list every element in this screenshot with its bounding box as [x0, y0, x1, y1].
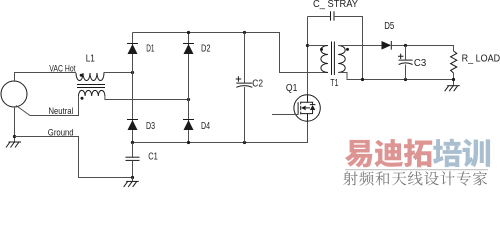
capacitor C_STRAY plates — [330, 11, 332, 20]
Q1 body diode wire — [312, 102, 314, 113]
wire C3 top — [405, 46, 407, 61]
ground symbol below C1 — [126, 180, 139, 182]
diode D3 — [127, 119, 138, 121]
transistor Q1 circle — [294, 95, 320, 121]
watermark char pei — [433, 139, 462, 168]
node top rail C2 — [243, 31, 246, 34]
Q1 body link — [306, 107, 310, 109]
wire R_LOAD bottom — [453, 73, 455, 86]
svg-text:R_ LOAD: R_ LOAD — [462, 54, 500, 65]
T1 primary winding — [321, 46, 328, 73]
L1 core lines — [77, 84, 105, 86]
svg-text:Q1: Q1 — [286, 83, 298, 94]
C2 plus sign — [236, 76, 242, 82]
node C1 ground junction — [131, 176, 134, 179]
inductor L1 top winding — [76, 73, 104, 81]
svg-text:D2: D2 — [201, 44, 211, 55]
inductor L1 bottom winding — [79, 90, 105, 96]
wire output top rail — [391, 46, 453, 52]
svg-text:D3: D3 — [146, 121, 155, 132]
capacitor C3 polarized — [399, 59, 413, 61]
wire VAC Hot — [15, 73, 77, 82]
T1 primary dot — [320, 48, 323, 51]
watermark char tuo — [404, 139, 432, 168]
svg-text:C3: C3 — [414, 58, 426, 69]
Q1 source internal — [301, 114, 313, 122]
node bottom rail D4 — [187, 141, 190, 144]
Q1 body arrow — [301, 106, 306, 111]
svg-text:D4: D4 — [201, 121, 210, 132]
wire top rail to primary — [133, 33, 328, 73]
Q1 body diode bar — [310, 104, 316, 106]
wire C_STRAY left — [308, 16, 331, 18]
wire secondary top to D5 — [338, 45, 381, 47]
node R_LOAD ground junction — [452, 78, 455, 81]
T1 secondary dot — [346, 48, 349, 51]
wire L1 bottom out to bridge — [105, 96, 189, 100]
Q1 channel segments — [300, 102, 302, 115]
C3 plus sign — [398, 54, 403, 59]
svg-text:C_ STRAY: C_ STRAY — [313, 0, 359, 10]
wire L1 top out to bridge — [104, 72, 133, 75]
svg-text:Ground: Ground — [48, 128, 74, 139]
wire C3 bottom — [405, 65, 407, 80]
L1 polarity dot top — [80, 74, 83, 77]
watermark char yi — [345, 140, 372, 168]
svg-text:D5: D5 — [384, 21, 394, 32]
wire Ground — [15, 137, 133, 178]
wire C2 bottom — [244, 87, 246, 143]
Q1 drain internal — [301, 95, 313, 102]
node bottom rail C2 — [243, 141, 246, 144]
Q1 gate wire stub — [272, 114, 298, 116]
wire C2 top — [244, 33, 246, 84]
diode D2 — [183, 43, 194, 45]
svg-text:VAC Hot: VAC Hot — [49, 64, 76, 75]
diode D1 — [127, 43, 138, 45]
wire C1 to ground — [132, 178, 134, 182]
svg-text:T1: T1 — [330, 78, 338, 89]
wire Neutral — [16, 96, 79, 116]
watermark char di — [375, 139, 404, 167]
Q1 gate bar — [297, 102, 299, 114]
AC source — [1, 81, 27, 107]
wire C1 bottom — [132, 160, 134, 177]
wire bottom rail to Q1 source — [133, 121, 308, 142]
wire bridge right column — [188, 33, 190, 143]
Q1 body diode triangle — [310, 105, 315, 110]
node ground junction — [13, 135, 16, 138]
diode D5 — [382, 41, 392, 50]
wire primary top — [308, 45, 328, 47]
T1 secondary winding — [338, 46, 345, 73]
wire C1 top — [132, 143, 134, 158]
capacitor C1 — [126, 156, 140, 158]
L1 polarity dot bottom — [81, 97, 84, 100]
watermark separator line — [345, 169, 488, 171]
svg-text:D1: D1 — [146, 44, 154, 55]
node drain-primary-CSTRAY — [306, 44, 309, 47]
T1 core lines — [331, 42, 333, 76]
node L1 to D2-D4 — [187, 98, 190, 101]
node C_STRAY right to output return — [361, 78, 364, 81]
wire drain vertical — [307, 17, 309, 95]
node L1 to D1-D3 — [131, 71, 134, 74]
node C3 bottom — [404, 78, 407, 81]
capacitor C2 polarized — [236, 82, 252, 84]
svg-text:C1: C1 — [148, 152, 158, 163]
node top rail D2 — [187, 31, 190, 34]
wire secondary bottom step — [338, 73, 453, 80]
node bottom rail D3-C1 — [131, 141, 134, 144]
svg-text:Neutral: Neutral — [49, 106, 74, 117]
resistor R_LOAD — [451, 51, 457, 73]
watermark char xun — [463, 139, 491, 168]
wire bridge left column — [132, 33, 134, 143]
ground symbol (mains earth) — [9, 141, 22, 143]
svg-text:L1: L1 — [86, 54, 95, 65]
watermark slogan — [343, 171, 487, 185]
diode D4 — [183, 119, 194, 121]
svg-text:C2: C2 — [252, 79, 263, 90]
ground symbol below R_LOAD — [447, 85, 460, 87]
wire C_STRAY right — [334, 17, 363, 80]
wire source bottom to ground node — [14, 107, 16, 142]
node C3 top — [404, 44, 407, 47]
